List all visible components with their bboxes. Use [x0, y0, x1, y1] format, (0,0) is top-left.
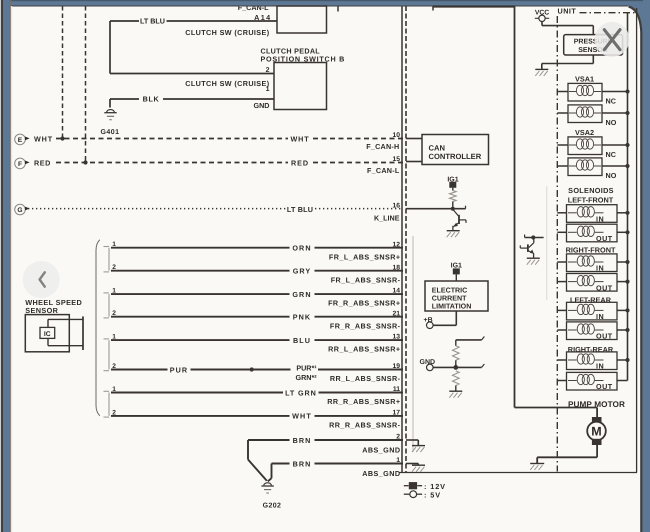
- svg-text:IN: IN: [596, 312, 604, 321]
- junction node E branch: [60, 136, 64, 140]
- solenoid coil LEFT-REAR OUT: [567, 322, 618, 340]
- svg-text:WHT: WHT: [292, 412, 312, 421]
- wire pressure sensor to ground: [542, 55, 594, 69]
- pin 12: [392, 241, 400, 248]
- pin 17: [392, 410, 400, 417]
- solenoid coil VSA2 NC: [568, 137, 602, 155]
- label CLUTCH SW (CRUISE) upper: [185, 28, 269, 37]
- wire RED dashed (F_CAN-L): [56, 162, 403, 164]
- svg-text:: 5V: : 5V: [424, 490, 441, 499]
- ground (chassis) ABS_GND upper: [406, 440, 425, 452]
- motor M1 pump motor: [587, 417, 606, 445]
- junction on bus: [625, 164, 629, 168]
- wire GRN (FR_R_ABS_SNSR+): [111, 293, 403, 295]
- label WHT: [292, 412, 312, 421]
- label OUT: [596, 234, 613, 243]
- label WHT middle: [290, 135, 309, 144]
- sensor pair bracket 4: [104, 391, 110, 417]
- svg-text:RED: RED: [291, 159, 309, 168]
- svg-text:CONTROLLER: CONTROLLER: [429, 152, 482, 161]
- net FR_R_ABS_SNSR+: [328, 299, 400, 308]
- label PUR: [170, 365, 188, 374]
- label BRN upper: [293, 436, 312, 445]
- pin 1 (sensor wire 7): [112, 386, 116, 393]
- svg-text:NC: NC: [606, 150, 616, 159]
- label IN: [596, 215, 604, 224]
- svg-text:1: 1: [396, 457, 400, 464]
- ground G202: [261, 483, 281, 510]
- sensor pair bracket 1: [104, 247, 110, 272]
- wire WHT dashed (F_CAN-H): [56, 138, 403, 140]
- junction on bus: [625, 358, 629, 362]
- svg-text:19: 19: [392, 363, 400, 370]
- pin 11: [393, 386, 400, 393]
- label RED middle: [291, 159, 309, 168]
- wire BRN lower (ABS_GND pin 1): [268, 464, 403, 482]
- svg-text:17: 17: [392, 410, 400, 417]
- svg-text:16: 16: [392, 202, 400, 209]
- solenoid coil LEFT-FRONT IN: [567, 205, 618, 223]
- solenoid coil LEFT-REAR IN: [567, 302, 618, 320]
- svg-text:21: 21: [392, 310, 400, 317]
- svg-text:RED: RED: [34, 159, 51, 168]
- svg-text:LIMITATION: LIMITATION: [432, 303, 472, 311]
- svg-text:ORN: ORN: [292, 244, 311, 253]
- label LEFT-REAR: [570, 296, 612, 305]
- ground (chassis) pressure sensor: [535, 69, 548, 76]
- label RIGHT-FRONT: [566, 245, 616, 254]
- pin 16: [392, 202, 400, 209]
- label PNK: [293, 313, 311, 322]
- wire pump motor to ground: [537, 445, 597, 463]
- label LT GRN: [285, 388, 317, 397]
- junction on bus: [625, 230, 629, 234]
- pin 1 (sensor wire 3): [112, 288, 116, 295]
- dashed branch wire from top to node F: [85, 6, 87, 163]
- svg-text:11: 11: [393, 386, 400, 393]
- svg-text:NO: NO: [606, 171, 617, 180]
- net ABS_GND lower: [362, 469, 400, 478]
- pin A14: [254, 13, 271, 22]
- svg-text:IN: IN: [596, 215, 604, 224]
- svg-text:NC: NC: [606, 96, 616, 105]
- net FR_L_ABS_SNSR-: [331, 275, 401, 284]
- svg-text:BRN: BRN: [293, 459, 312, 468]
- box PRESSURE SENSOR: [564, 35, 623, 55]
- node GND (5V): [427, 364, 434, 371]
- splice junction PUR to GRN: [250, 367, 254, 371]
- svg-text:IN: IN: [596, 264, 604, 273]
- svg-text:SOLENOIDS: SOLENOIDS: [568, 186, 614, 195]
- svg-text:ELECTRIC: ELECTRIC: [432, 287, 467, 295]
- label SOLENOIDS: [568, 186, 614, 195]
- label WHEEL SPEED SENSOR: [25, 298, 82, 315]
- wire RIGHT-FRONT IN: [557, 261, 627, 263]
- svg-text:RR_L_ABS_SNSR-: RR_L_ABS_SNSR-: [330, 374, 401, 383]
- resistor divider lower: [453, 371, 460, 391]
- svg-text:BLK: BLK: [143, 95, 160, 104]
- cut-off wire stub at top: [337, 6, 339, 12]
- control unit boundary line solid: [401, 6, 403, 473]
- diagram bottom border: [400, 472, 638, 474]
- power node IG1 (12V) upper: [447, 176, 458, 190]
- unit boundary dash-dot vertical: [556, 16, 558, 472]
- net F_CAN-L: [367, 166, 400, 175]
- svg-text:ABS_GND: ABS_GND: [362, 469, 400, 478]
- wire stub F_CAN-L to CAN controller: [406, 161, 422, 163]
- pin 1: [266, 86, 270, 93]
- label UNIT: [558, 7, 577, 16]
- svg-text:10: 10: [392, 132, 400, 139]
- svg-text:RR_R_ABS_SNSR-: RR_R_ABS_SNSR-: [329, 421, 401, 430]
- unit boundary dash-dot horizontal: [580, 12, 636, 14]
- svg-text:GRN: GRN: [292, 290, 311, 299]
- wire LEFT-REAR IN: [557, 309, 627, 311]
- svg-text:LEFT-FRONT: LEFT-FRONT: [568, 196, 614, 205]
- power node +B (5V): [424, 317, 434, 328]
- label OUT: [596, 332, 613, 341]
- solenoid coil RIGHT-REAR IN: [567, 352, 618, 370]
- wire VSA1 NO: [557, 112, 627, 114]
- svg-text:18: 18: [392, 264, 400, 271]
- net RR_L_ABS_SNSR+: [328, 345, 400, 354]
- wire rail to pump motor: [515, 408, 598, 418]
- pin 1 (ABS_GND): [396, 457, 400, 464]
- box ELECTRIC CURRENT LIMITATION: [425, 281, 488, 311]
- pin 19: [392, 363, 400, 370]
- junction on bus: [625, 111, 629, 115]
- close button X: [595, 22, 630, 57]
- switch box CLUTCH PEDAL POSITION SWITCH B: [274, 63, 327, 110]
- pin 2 (sensor wire 2): [112, 264, 116, 271]
- svg-text:LT GRN: LT GRN: [285, 388, 317, 397]
- resistor in K-line pull-up: [450, 191, 457, 207]
- label RED left: [34, 159, 51, 168]
- label BLU: [293, 336, 311, 345]
- svg-text:F_CAN-H: F_CAN-H: [366, 142, 399, 151]
- net K_LINE: [374, 214, 400, 223]
- power node IG1 (12V) lower: [451, 263, 462, 281]
- svg-text:VSA1: VSA1: [575, 75, 594, 84]
- svg-text:15: 15: [392, 156, 400, 163]
- ground (chassis) pump motor: [530, 464, 544, 471]
- label VSA1: [575, 75, 594, 84]
- solenoid coil VSA2 NO: [568, 158, 602, 176]
- connector box (cruise control unit, cut off at top): [277, 6, 327, 33]
- faint inner vertical line: [412, 236, 414, 452]
- svg-text:CURRENT: CURRENT: [432, 295, 467, 303]
- svg-text:ABS_GND: ABS_GND: [362, 445, 400, 454]
- junction node F branch: [83, 160, 87, 164]
- back button circle: [23, 261, 60, 298]
- svg-text:VSA2: VSA2: [575, 128, 594, 137]
- right page edge shadow + rounded corner: [629, 7, 642, 532]
- junction on bus: [625, 89, 629, 93]
- solenoid coil VSA1 NC: [568, 83, 602, 101]
- wire from limitation box to +B: [433, 311, 456, 325]
- junction K_LINE / pull-up: [451, 207, 455, 211]
- solenoid coil RIGHT-FRONT IN: [567, 254, 618, 272]
- wire PUR/GRN (RR_L_ABS_SNSR-): [111, 369, 403, 371]
- svg-text:F: F: [18, 161, 22, 168]
- pin 18: [392, 264, 400, 271]
- svg-text:WHT: WHT: [34, 135, 53, 144]
- solenoid coil LEFT-FRONT OUT: [567, 224, 618, 242]
- net ABS_GND upper: [362, 445, 400, 454]
- wheel speed sensor IC symbol: [25, 315, 83, 352]
- label LT BLU middle: [287, 205, 313, 214]
- internal vertical rail to pump motor: [514, 7, 516, 408]
- svg-text:PUR: PUR: [170, 365, 188, 374]
- faint fold line: [546, 186, 548, 300]
- label IN: [596, 362, 604, 371]
- label NO: [606, 171, 617, 180]
- svg-text:BLU: BLU: [293, 336, 311, 345]
- svg-text:FR_L_ABS_SNSR+: FR_L_ABS_SNSR+: [329, 252, 401, 261]
- label PUMP MOTOR: [568, 400, 625, 409]
- cut-off text fragment F_CAN-L at top: [238, 3, 269, 12]
- svg-text:UNIT: UNIT: [558, 7, 577, 16]
- label IN: [596, 264, 604, 273]
- junction on bus: [625, 328, 629, 332]
- solenoid coil RIGHT-REAR OUT: [567, 372, 618, 390]
- svg-text:BRN: BRN: [293, 436, 312, 445]
- label BRN lower: [293, 459, 312, 468]
- pin 21: [392, 310, 400, 317]
- wire VCC to pressure sensor: [542, 22, 593, 35]
- svg-text:OUT: OUT: [596, 382, 613, 391]
- net RR_R_ABS_SNSR+: [327, 397, 400, 406]
- svg-text:FR_R_ABS_SNSR-: FR_R_ABS_SNSR-: [330, 321, 401, 330]
- junction on bus: [625, 280, 629, 284]
- label IN: [596, 312, 604, 321]
- svg-text:+B: +B: [424, 317, 433, 324]
- sensor pair bracket 2: [104, 293, 110, 318]
- svg-text:A14: A14: [254, 13, 271, 22]
- connector E: [15, 134, 30, 145]
- wire K_LINE into unit: [406, 206, 466, 209]
- svg-text:G401: G401: [100, 129, 119, 136]
- svg-text:IC: IC: [44, 331, 51, 338]
- svg-text:13: 13: [392, 334, 400, 341]
- svg-text:WHT: WHT: [290, 135, 309, 144]
- wire BLU (RR_L_ABS_SNSR+): [111, 339, 403, 341]
- internal top rail: [433, 7, 515, 11]
- dashed branch wire from top to node E: [62, 6, 64, 139]
- svg-text:OUT: OUT: [596, 234, 613, 243]
- svg-text:NO: NO: [606, 118, 617, 127]
- label CLUTCH SW (CRUISE) lower: [185, 79, 269, 88]
- svg-text:2: 2: [396, 434, 400, 441]
- svg-text:PNK: PNK: [293, 313, 311, 322]
- ground (chassis) below Q2: [527, 258, 540, 265]
- ground (chassis) below Q1: [447, 231, 460, 238]
- label LT BLU: [140, 17, 165, 26]
- pin 10: [392, 132, 400, 139]
- wire RIGHT-REAR IN: [557, 359, 627, 361]
- label NC: [606, 96, 616, 105]
- diagram right border: [636, 8, 638, 473]
- wire LEFT-REAR OUT: [557, 329, 627, 331]
- svg-text:RR_L_ABS_SNSR+: RR_L_ABS_SNSR+: [328, 345, 400, 354]
- wire to clutch pedal position switch pin 2: [110, 73, 274, 75]
- wire LT GRN (RR_R_ABS_SNSR+): [111, 392, 403, 394]
- junction on bus: [625, 211, 629, 215]
- control unit boundary line dashed: [405, 6, 407, 473]
- svg-text:G202: G202: [263, 503, 282, 510]
- wire ORN (FR_L_ABS_SNSR+): [111, 247, 403, 249]
- left window edge: [0, 0, 1, 532]
- solenoid coil RIGHT-FRONT OUT: [567, 274, 618, 292]
- pin 1 (sensor wire 5): [112, 334, 116, 341]
- label NC: [606, 150, 616, 159]
- wire RIGHT-REAR OUT (bus end): [557, 380, 627, 382]
- ground (chassis) ABS_GND lower: [406, 464, 425, 472]
- svg-text:1: 1: [266, 86, 270, 93]
- wire BRN upper (ABS_GND pin 2): [248, 440, 403, 481]
- junction on bus: [625, 308, 629, 312]
- svg-text:GND: GND: [254, 101, 270, 110]
- pin 2 (sensor wire 6): [112, 363, 116, 370]
- label CLUTCH PEDAL POSITION SWITCH B: [261, 47, 346, 64]
- ground G401: [100, 110, 119, 136]
- label OUT: [596, 283, 613, 292]
- label WHT left: [34, 135, 53, 144]
- svg-text:LEFT-REAR: LEFT-REAR: [570, 296, 612, 305]
- svg-text:F_CAN-L: F_CAN-L: [367, 166, 400, 175]
- wire VSA1 NC: [557, 91, 627, 93]
- wire RIGHT-FRONT OUT: [557, 281, 627, 283]
- label OUT: [596, 382, 613, 391]
- svg-text:2: 2: [266, 67, 270, 74]
- label PUR*/GRN* stacked: [296, 364, 318, 382]
- svg-text:OUT: OUT: [596, 332, 613, 341]
- svg-text:IN: IN: [596, 362, 604, 371]
- net FR_L_ABS_SNSR+: [329, 252, 401, 261]
- box CAN CONTROLLER: [422, 135, 489, 165]
- pin 2 (sensor wire 4): [112, 310, 116, 317]
- pin 13: [392, 334, 400, 341]
- solenoid coil VSA1 NO: [568, 105, 602, 123]
- pin 2: [266, 67, 270, 74]
- label GND: [254, 101, 270, 110]
- label ORN: [292, 244, 311, 253]
- svg-text:LT BLU: LT BLU: [287, 205, 313, 214]
- svg-text:PUR*¹: PUR*¹: [296, 364, 317, 373]
- label LEFT-FRONT: [568, 196, 614, 205]
- connector F: [15, 158, 30, 169]
- svg-text:GRY: GRY: [293, 267, 312, 276]
- label GRN: [292, 290, 311, 299]
- legend 5V symbol: [404, 490, 441, 499]
- svg-text:RIGHT-REAR: RIGHT-REAR: [568, 345, 614, 354]
- label GRY: [293, 267, 312, 276]
- net FR_R_ABS_SNSR-: [330, 321, 401, 330]
- right collector bus: [627, 13, 629, 381]
- wire WHT (RR_R_ABS_SNSR-): [111, 415, 403, 417]
- svg-text:SENSOR: SENSOR: [25, 306, 58, 315]
- ground (chassis) below divider: [449, 391, 462, 398]
- svg-text:14: 14: [392, 288, 400, 295]
- wire GND divider tap: [433, 364, 484, 367]
- transistor Q1 K-line driver: [453, 209, 466, 230]
- label GND (5V node): [420, 359, 436, 366]
- top bar: [0, 0, 650, 6]
- legend 12V symbol: [404, 482, 446, 491]
- wire GRY (FR_L_ABS_SNSR-): [111, 270, 403, 272]
- wire LEFT-FRONT IN: [557, 212, 627, 214]
- wire LEFT-FRONT OUT: [557, 231, 627, 233]
- svg-text:G: G: [17, 207, 22, 214]
- svg-text:CLUTCH SW (CRUISE): CLUTCH SW (CRUISE): [185, 79, 269, 88]
- pin 14: [392, 288, 400, 295]
- label NO: [606, 118, 617, 127]
- svg-text:LT BLU: LT BLU: [140, 17, 165, 26]
- svg-text:RIGHT-FRONT: RIGHT-FRONT: [566, 245, 616, 254]
- pin 15: [392, 156, 400, 163]
- junction on bus: [625, 143, 629, 147]
- svg-text:CLUTCH SW (CRUISE): CLUTCH SW (CRUISE): [185, 28, 269, 37]
- pin 2 (ABS_GND): [396, 434, 400, 441]
- junction on bus: [625, 260, 629, 264]
- svg-text:GRN*²: GRN*²: [296, 373, 318, 382]
- wire LT BLU to clutch switch pin A14: [110, 21, 277, 74]
- wire stub F_CAN-H to CAN controller: [406, 138, 422, 140]
- wire VSA2 NO: [557, 165, 627, 167]
- svg-text:OUT: OUT: [596, 283, 613, 292]
- junction divider tap: [453, 365, 458, 370]
- wire BLK to switch pin 1: [110, 99, 274, 108]
- svg-text:K_LINE: K_LINE: [374, 214, 400, 223]
- wire upper divider branch: [456, 337, 485, 346]
- wire PNK (FR_R_ABS_SNSR-): [111, 316, 403, 318]
- transistor Q2 with wire stub: [520, 235, 543, 259]
- label RIGHT-REAR: [568, 345, 614, 354]
- wire VSA2 NC: [557, 144, 627, 146]
- wheel speed sensor connector bracket (parenthesis): [96, 240, 100, 416]
- svg-text:E: E: [18, 137, 23, 144]
- label BLK: [143, 95, 160, 104]
- wire LT BLU dotted (K_LINE): [28, 208, 403, 210]
- pin 1 (sensor wire 1): [112, 241, 116, 248]
- resistor divider upper: [453, 346, 460, 368]
- svg-text:FR_R_ABS_SNSR+: FR_R_ABS_SNSR+: [328, 299, 400, 308]
- sensor pair bracket 3: [104, 339, 110, 371]
- power node VCC (5V): [535, 9, 549, 21]
- label VSA2: [575, 128, 594, 137]
- svg-text:RR_R_ABS_SNSR+: RR_R_ABS_SNSR+: [327, 397, 400, 406]
- svg-text:12: 12: [392, 241, 400, 248]
- svg-text:M: M: [591, 425, 601, 439]
- connector G: [15, 204, 30, 215]
- pin 2 (sensor wire 8): [112, 409, 116, 416]
- svg-text:FR_L_ABS_SNSR-: FR_L_ABS_SNSR-: [331, 275, 401, 284]
- net F_CAN-H: [366, 142, 399, 151]
- net RR_L_ABS_SNSR-: [330, 374, 401, 383]
- net RR_R_ABS_SNSR-: [329, 421, 401, 430]
